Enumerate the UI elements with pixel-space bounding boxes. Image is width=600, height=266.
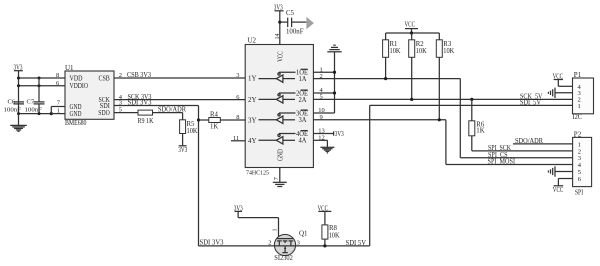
ground (hatched, 4A)	[320, 147, 334, 153]
wire 3V3 vertical to caps/ground	[18, 78, 20, 114]
svg-text:3: 3	[236, 72, 239, 79]
buffer gate 3 (U2)	[259, 110, 309, 124]
svg-text:SDI 3V3: SDI 3V3	[200, 240, 225, 247]
svg-text:GND: GND	[277, 149, 285, 161]
wire SPI_SCK to P2 pin2	[472, 150, 573, 152]
power flag 3V3 (above U2)	[274, 3, 284, 11]
power flag 3V3 (Q1 gate)	[234, 205, 243, 212]
wire 4Y pin 11 stub	[231, 140, 245, 142]
buffer gate 4 (U2)	[259, 131, 309, 145]
svg-text:9: 9	[320, 114, 323, 121]
svg-text:3A: 3A	[299, 117, 307, 124]
resistor R1 10K	[383, 33, 401, 79]
svg-text:BME680: BME680	[65, 120, 87, 127]
node junction (R1/CSB_5V)	[384, 77, 387, 80]
wire SDI_3V3 bottom row	[199, 245, 275, 247]
svg-text:10K: 10K	[416, 48, 427, 55]
wire VDD pin 8 row	[19, 77, 66, 79]
node junction (2OE)	[333, 91, 336, 94]
resistor R6 1K	[469, 99, 485, 150]
ground (hatched, below C6)	[10, 114, 27, 132]
svg-text:C5: C5	[286, 10, 295, 17]
svg-text:VCC: VCC	[405, 21, 416, 29]
transistor Q1 SI2302	[274, 234, 295, 255]
svg-text:U2: U2	[248, 36, 257, 44]
wire VDDIO pin 6 row	[19, 85, 66, 87]
node junction SDI/R4	[197, 118, 200, 121]
svg-text:SI2302: SI2302	[274, 255, 293, 262]
buffer gate 2 (U2)	[259, 90, 309, 104]
svg-text:R4: R4	[210, 111, 219, 118]
node junction (C7 crossing VDDIO)	[38, 84, 41, 87]
resistor R4 1K	[199, 111, 246, 130]
svg-text:2: 2	[119, 72, 122, 79]
svg-text:U1: U1	[65, 64, 74, 72]
svg-text:10K: 10K	[390, 48, 401, 55]
svg-text:1: 1	[578, 141, 581, 148]
wire ground rail under caps	[19, 113, 52, 115]
wire GND pin 1 row	[51, 113, 65, 115]
ground (sideways, P2 pin5)	[548, 166, 555, 176]
svg-text:R9 1K: R9 1K	[138, 118, 154, 125]
svg-text:2: 2	[320, 73, 323, 80]
wire SDO/ADR to P2 pin1	[513, 143, 573, 145]
svg-text:C6: C6	[8, 99, 16, 106]
node junction (SCK_5V/R6)	[470, 98, 473, 101]
capacitor C5 100nF	[280, 10, 307, 36]
svg-text:1K: 1K	[476, 127, 484, 134]
svg-text:CSB 3V3: CSB 3V3	[127, 72, 152, 79]
wire 2A pin 5 (SCK_5V)	[313, 98, 572, 100]
node junction (R3/3A)	[438, 118, 441, 121]
ground (sideways, P1 pin3)	[548, 88, 555, 98]
wire 4A pin 12 to ground	[313, 140, 327, 147]
svg-text:12: 12	[318, 135, 325, 142]
resistor R5 10K	[180, 113, 198, 146]
node junction (1OE)	[333, 71, 336, 74]
svg-text:7: 7	[274, 177, 280, 180]
svg-text:1: 1	[273, 229, 279, 232]
resistor R9 1K	[138, 110, 154, 125]
resistor R8 10K	[322, 211, 340, 246]
wire P2 pin6 stub to VCC	[558, 179, 572, 186]
svg-text:P2: P2	[574, 130, 582, 138]
node junction (pin1 rail)	[50, 112, 53, 115]
power flag VCC (P2)	[553, 186, 564, 194]
svg-text:P1: P1	[574, 71, 582, 79]
power flag VCC (pull-up rail)	[405, 21, 419, 33]
svg-text:5: 5	[578, 169, 581, 176]
svg-text:SPI_MOSI: SPI_MOSI	[488, 159, 516, 166]
svg-text:R2: R2	[416, 41, 425, 48]
wire 1A pin 2 (CSB_5V)	[313, 79, 572, 158]
svg-text:CSB: CSB	[99, 74, 111, 82]
svg-text:14: 14	[275, 34, 281, 40]
wire CSB net (U1 pin2 to U2 1Y pin3)	[114, 77, 245, 79]
wire P2 pin5 stub	[555, 171, 573, 173]
wire through Q1	[274, 245, 296, 247]
svg-text:SDI 3V3: SDI 3V3	[128, 100, 153, 107]
svg-text:VDDIO: VDDIO	[70, 82, 89, 90]
svg-text:2A: 2A	[299, 97, 307, 104]
capacitor C6	[4, 99, 25, 114]
wire 4OE pin 13 to 3V3	[313, 133, 333, 135]
wire 3A pin 9 (SPI_MOSI route)	[313, 120, 572, 165]
connector P2 (SPI)	[573, 130, 592, 196]
wire SCK net (U1 pin4 to U2 2Y pin6)	[114, 99, 245, 101]
connector P1 (I2C)	[573, 71, 594, 121]
svg-text:3Y: 3Y	[248, 116, 257, 124]
svg-text:VCC: VCC	[553, 187, 564, 194]
power flag 3V3 (4OE)	[333, 131, 335, 135]
svg-text:10K: 10K	[187, 128, 198, 135]
svg-text:74HC125: 74HC125	[246, 170, 269, 177]
wire P1 pin4 stub	[558, 80, 572, 87]
node junction (3V3/VDD)	[17, 77, 20, 80]
wire SDI net (U1 pin3, turns down)	[114, 106, 199, 246]
node junction (3V3/VDDIO)	[17, 84, 20, 87]
svg-text:R8: R8	[329, 225, 338, 232]
node junction (C7/gnd rail)	[38, 112, 41, 115]
svg-text:C7: C7	[27, 99, 35, 106]
svg-text:10K: 10K	[443, 48, 454, 55]
svg-text:I2C: I2C	[573, 114, 583, 121]
node junction (VCC rail)	[410, 31, 413, 34]
node junction (C7/VDD)	[38, 77, 41, 80]
svg-text:4Y: 4Y	[248, 137, 257, 145]
wire 3OE pin 10	[313, 112, 334, 114]
wire SDI_5V bottom row	[296, 245, 370, 247]
svg-text:1: 1	[57, 108, 60, 115]
wire 2OE pin 4	[313, 92, 334, 94]
svg-text:SDO/ADR: SDO/ADR	[515, 138, 543, 145]
ground (earth, above OE rail)	[327, 45, 341, 52]
wire SDO (U1 pin5)	[114, 112, 138, 114]
svg-text:8: 8	[56, 72, 59, 79]
wire 3V3 to Q1 gate	[238, 211, 278, 238]
svg-text:2Y: 2Y	[248, 96, 257, 104]
svg-text:SDO: SDO	[98, 109, 110, 117]
wire pull-up top rail	[386, 32, 440, 34]
svg-text:SPI: SPI	[575, 189, 584, 196]
svg-text:SDO/ADR: SDO/ADR	[158, 107, 186, 114]
ground (gray flag right of C5)	[306, 17, 314, 29]
ground (earth, below U2)	[273, 182, 287, 186]
svg-text:100nF: 100nF	[286, 29, 304, 36]
wire SDO/ADR segment	[153, 112, 183, 114]
svg-text:3V3: 3V3	[335, 131, 344, 138]
svg-text:8: 8	[236, 114, 239, 121]
svg-text:3V3: 3V3	[178, 147, 187, 154]
node junction (R2/SCK_5V)	[410, 98, 413, 101]
svg-text:1Y: 1Y	[248, 74, 257, 82]
svg-text:1A: 1A	[299, 76, 307, 83]
power flag 3V3 (below R5)	[178, 146, 187, 154]
svg-text:R1: R1	[390, 41, 398, 48]
wire OE enable vertical	[334, 52, 336, 113]
svg-text:VCC: VCC	[277, 51, 285, 62]
resistor R2 10K	[409, 33, 427, 99]
svg-text:11: 11	[233, 135, 239, 142]
power flag VCC (R8)	[318, 204, 332, 212]
capacitor C7	[25, 78, 45, 114]
node junction (C5 tap)	[278, 21, 281, 24]
svg-text:5: 5	[320, 94, 323, 101]
wire 1OE pin 1	[313, 71, 334, 73]
IC U2 74HC125	[245, 36, 313, 176]
svg-text:R3: R3	[443, 41, 452, 48]
power flag VCC (P1)	[553, 73, 564, 80]
svg-text:SDI 5V: SDI 5V	[346, 240, 367, 247]
svg-text:100nF: 100nF	[25, 106, 43, 113]
wire SDI_5V route (bottom to P1)	[370, 105, 573, 246]
svg-text:Q1: Q1	[299, 229, 308, 237]
svg-text:10K: 10K	[329, 232, 340, 239]
power flag 3V3 (left, U1 supply)	[14, 64, 23, 78]
resistor R3 10K	[436, 33, 454, 120]
IC U1 BME680	[65, 64, 114, 127]
wire GND pin 7 jog	[51, 107, 65, 114]
node junction (C6/gnd rail)	[17, 112, 20, 115]
wire U2 pin 14 VCC	[279, 11, 281, 45]
svg-text:4A: 4A	[299, 138, 307, 145]
wire U2 pin 7 GND stub	[279, 168, 281, 183]
svg-text:SDI_5V: SDI_5V	[520, 100, 541, 107]
node junction (R8/SDI_5V)	[323, 244, 326, 247]
svg-text:5: 5	[119, 106, 122, 113]
svg-text:1K: 1K	[210, 124, 218, 131]
svg-text:GND: GND	[70, 110, 82, 118]
buffer gate 1 (U2)	[259, 69, 309, 83]
wire P1 pin3 stub	[555, 92, 573, 94]
svg-text:1: 1	[578, 103, 581, 110]
